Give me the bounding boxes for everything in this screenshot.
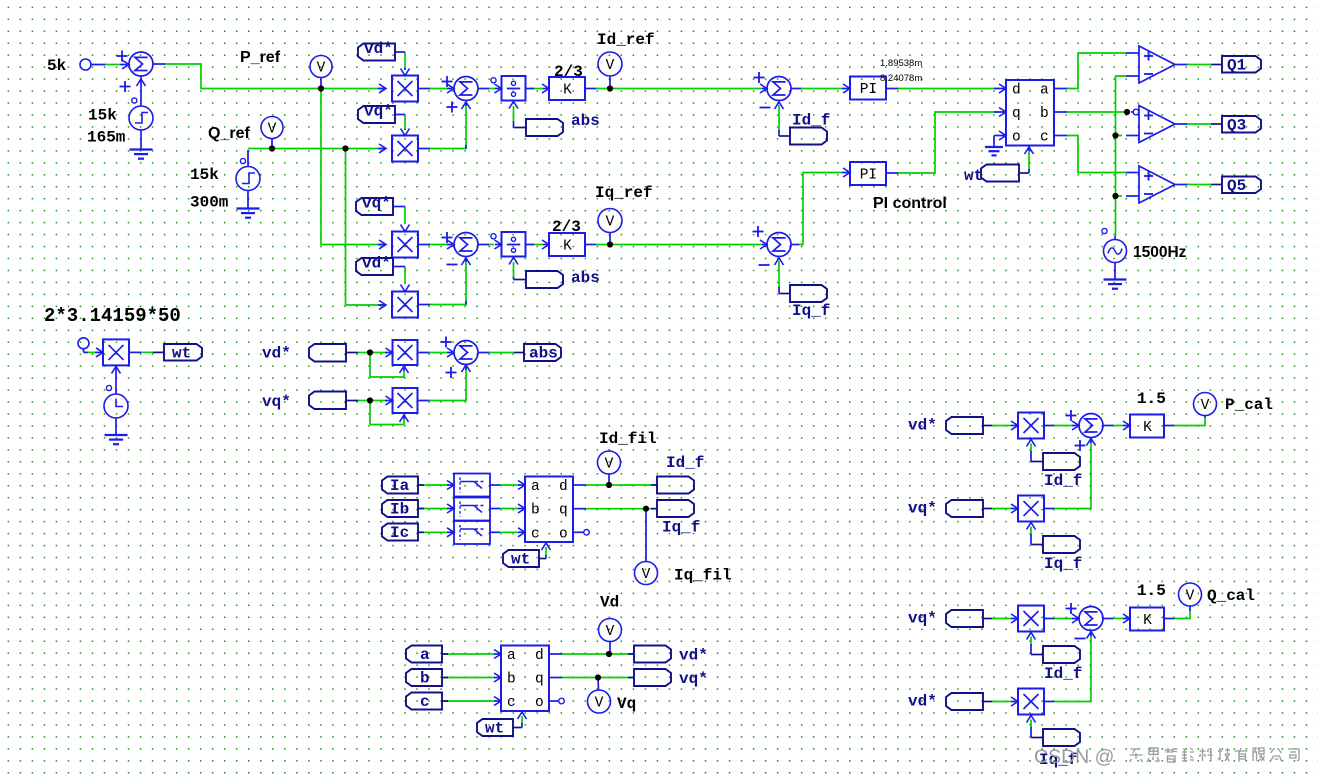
- svg-text:V: V: [606, 215, 615, 231]
- svg-text:Ic: Ic: [390, 524, 409, 542]
- svg-text:abs: abs: [529, 345, 558, 363]
- svg-text:o: o: [559, 526, 568, 542]
- svg-text:vd*: vd*: [908, 417, 937, 435]
- svg-text:abs: abs: [571, 112, 600, 130]
- svg-text:Id_f: Id_f: [1044, 472, 1082, 490]
- svg-text:Id_fil: Id_fil: [599, 430, 657, 448]
- svg-text:a: a: [531, 479, 540, 495]
- svg-text:vq*: vq*: [908, 500, 937, 518]
- svg-text:vq*: vq*: [262, 393, 291, 411]
- svg-text:vq*: vq*: [364, 103, 393, 121]
- svg-text:K: K: [563, 83, 572, 99]
- svg-text:c: c: [1040, 130, 1049, 146]
- svg-text:Id_f: Id_f: [792, 112, 830, 130]
- svg-text:Vd: Vd: [600, 594, 619, 612]
- svg-text:vd*: vd*: [362, 255, 391, 273]
- svg-text:o: o: [535, 695, 544, 711]
- svg-text:vd*: vd*: [364, 40, 393, 58]
- svg-text:d: d: [559, 479, 568, 495]
- svg-text:PI: PI: [860, 82, 877, 98]
- svg-text:wt: wt: [172, 345, 191, 363]
- svg-text:b: b: [420, 670, 430, 688]
- svg-text:Ia: Ia: [390, 477, 410, 495]
- svg-text:q: q: [1012, 106, 1021, 122]
- svg-text:a: a: [1040, 83, 1049, 99]
- svg-text:K: K: [1143, 420, 1152, 436]
- svg-text:V: V: [1186, 589, 1195, 605]
- svg-text:a: a: [420, 646, 430, 664]
- svg-text:Ib: Ib: [390, 501, 409, 519]
- svg-text:1.89538m: 1.89538m: [880, 58, 922, 69]
- svg-text:vd*: vd*: [679, 647, 708, 665]
- svg-text:PI: PI: [860, 168, 877, 184]
- svg-text:165m: 165m: [87, 129, 126, 147]
- svg-text:K: K: [1143, 613, 1152, 629]
- svg-text:wt: wt: [485, 720, 504, 738]
- svg-text:vd*: vd*: [908, 693, 937, 711]
- svg-text:vq*: vq*: [679, 670, 708, 688]
- svg-text:b: b: [1040, 106, 1049, 122]
- svg-text:V: V: [606, 58, 615, 74]
- svg-text:abs: abs: [571, 269, 600, 287]
- svg-text:b: b: [507, 672, 516, 688]
- svg-text:q: q: [535, 672, 544, 688]
- svg-text:Iq_f: Iq_f: [1044, 555, 1082, 573]
- svg-text:wt: wt: [964, 167, 983, 185]
- svg-text:Q_cal: Q_cal: [1207, 587, 1255, 605]
- svg-text:Iq_ref: Iq_ref: [595, 184, 653, 202]
- svg-text:c: c: [507, 695, 516, 711]
- svg-text:vq*: vq*: [362, 195, 391, 213]
- svg-text:Q1: Q1: [1227, 57, 1246, 75]
- svg-text:o: o: [1012, 130, 1021, 146]
- svg-text:Id_ref: Id_ref: [597, 31, 655, 49]
- svg-text:Vq: Vq: [617, 695, 636, 713]
- svg-text:300m: 300m: [190, 194, 229, 212]
- svg-text:Id_f: Id_f: [666, 454, 704, 472]
- svg-text:V: V: [606, 624, 615, 640]
- svg-text:V: V: [1201, 398, 1210, 414]
- svg-text:d: d: [1012, 83, 1021, 99]
- svg-text:CSDN @: CSDN @: [1034, 746, 1114, 768]
- svg-text:Q3: Q3: [1227, 117, 1246, 135]
- svg-text:1.5: 1.5: [1137, 582, 1166, 600]
- svg-text:V: V: [268, 122, 277, 138]
- svg-text:q: q: [559, 503, 568, 519]
- svg-text:V: V: [317, 61, 326, 77]
- svg-text:c: c: [420, 693, 430, 711]
- svg-text:15k: 15k: [88, 107, 117, 125]
- svg-text:8.24078m: 8.24078m: [880, 73, 922, 84]
- svg-text:V: V: [605, 457, 614, 473]
- svg-text:Q_ref: Q_ref: [208, 125, 250, 142]
- svg-text:Iq_f: Iq_f: [792, 302, 830, 320]
- svg-text:vd*: vd*: [262, 345, 291, 363]
- svg-text:wt: wt: [511, 551, 530, 569]
- svg-text:a: a: [507, 648, 516, 664]
- svg-text:5k: 5k: [47, 57, 67, 75]
- svg-text:Iq_fil: Iq_fil: [674, 567, 732, 585]
- svg-text:K: K: [563, 239, 572, 255]
- svg-text:Q5: Q5: [1227, 177, 1246, 195]
- svg-text:d: d: [535, 648, 544, 664]
- svg-text:1500Hz: 1500Hz: [1133, 244, 1187, 261]
- svg-text:1.5: 1.5: [1137, 390, 1166, 408]
- svg-text:V: V: [595, 696, 604, 712]
- svg-text:V: V: [642, 567, 651, 583]
- svg-text:P_cal: P_cal: [1225, 396, 1273, 414]
- svg-text:P_ref: P_ref: [240, 49, 281, 66]
- svg-text:vq*: vq*: [908, 610, 937, 628]
- svg-text:15k: 15k: [190, 166, 219, 184]
- svg-text:Iq_f: Iq_f: [662, 519, 700, 537]
- svg-text:2/3: 2/3: [552, 218, 581, 236]
- svg-text:c: c: [531, 526, 540, 542]
- svg-text:PI control: PI control: [873, 195, 947, 212]
- svg-text:b: b: [531, 503, 540, 519]
- svg-text:2/3: 2/3: [554, 63, 583, 81]
- svg-text:2*3.14159*50: 2*3.14159*50: [44, 305, 181, 327]
- svg-text:Id_f: Id_f: [1044, 665, 1082, 683]
